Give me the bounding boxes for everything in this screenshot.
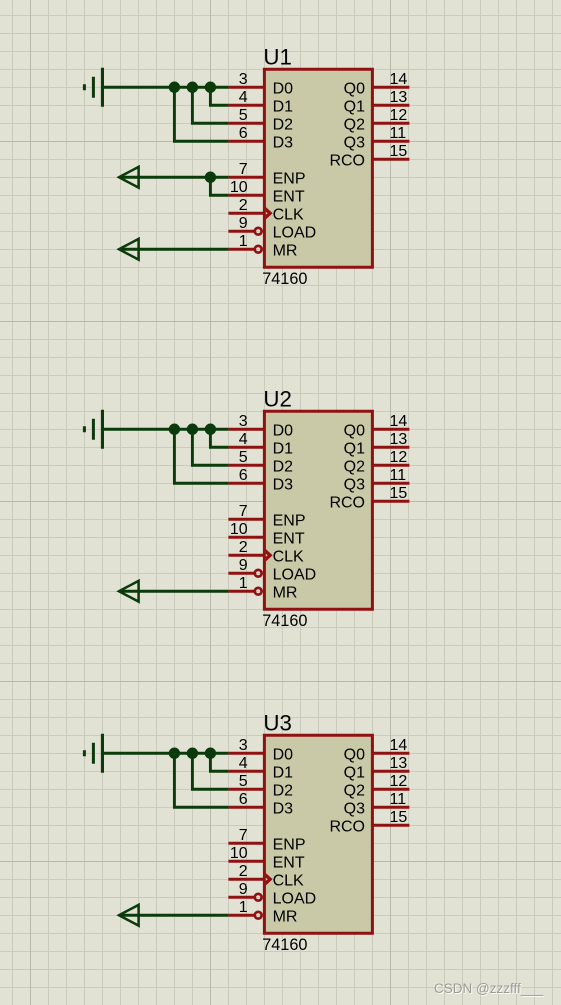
svg-text:MR: MR <box>273 908 298 925</box>
pin 1 (MR) <box>228 233 297 259</box>
svg-text:1: 1 <box>239 233 248 250</box>
svg-text:CSDN @zzzfff___: CSDN @zzzfff___ <box>434 981 544 996</box>
svg-text:ENP: ENP <box>273 170 306 187</box>
svg-text:5: 5 <box>239 773 248 790</box>
svg-text:9: 9 <box>239 881 248 898</box>
wire branch to D3 <box>174 753 228 807</box>
svg-text:Q2: Q2 <box>344 116 365 133</box>
pin 15 (RCO) <box>329 143 409 169</box>
svg-text:7: 7 <box>239 161 248 178</box>
svg-text:CLK: CLK <box>273 548 304 565</box>
ground symbol <box>83 68 104 107</box>
svg-text:LOAD: LOAD <box>273 224 317 241</box>
svg-text:2: 2 <box>239 197 248 214</box>
pin 14 (Q0) <box>344 737 410 763</box>
svg-text:9: 9 <box>239 557 248 574</box>
pin 13 (Q1) <box>344 431 410 457</box>
svg-text:12: 12 <box>390 773 408 790</box>
input terminal arrow (MR net) <box>119 581 139 602</box>
pin 2 (CLK) <box>228 197 304 223</box>
input terminal arrow (MR net) <box>119 239 139 260</box>
pin 4 (D1) <box>228 89 293 115</box>
svg-text:15: 15 <box>390 485 408 502</box>
svg-text:ENT: ENT <box>273 854 305 871</box>
svg-text:Q1: Q1 <box>344 98 365 115</box>
junction on D0 wire at D3 branch <box>169 748 180 759</box>
pin 11 (Q3) <box>344 467 410 493</box>
pin 3 (D0) <box>228 737 293 763</box>
svg-text:U3: U3 <box>263 711 292 736</box>
svg-text:5: 5 <box>239 449 248 466</box>
junction on D0 wire at D1 branch <box>205 82 216 93</box>
svg-text:Q0: Q0 <box>344 422 365 439</box>
svg-text:LOAD: LOAD <box>273 566 317 583</box>
pin 3 (D0) <box>228 71 293 97</box>
svg-text:12: 12 <box>390 107 408 124</box>
wire terminal to MR pin <box>120 590 228 593</box>
pin 7 (ENP) <box>228 827 305 853</box>
pin 14 (Q0) <box>344 413 410 439</box>
pin 7 (ENP) <box>228 161 305 187</box>
junction on D0 wire at D1 branch <box>205 748 216 759</box>
pin 5 (D2) <box>228 107 293 133</box>
svg-text:D0: D0 <box>273 422 294 439</box>
junction on D0 wire at D1 branch <box>205 424 216 435</box>
svg-text:D0: D0 <box>273 746 294 763</box>
svg-text:U2: U2 <box>263 387 292 412</box>
svg-text:Q1: Q1 <box>344 764 365 781</box>
junction on D0 wire at D3 branch <box>169 82 180 93</box>
svg-text:D2: D2 <box>273 782 294 799</box>
svg-text:6: 6 <box>239 125 248 142</box>
svg-text:D2: D2 <box>273 116 294 133</box>
svg-text:ENT: ENT <box>273 530 305 547</box>
wire ground to D0 pin <box>104 752 228 755</box>
pin 12 (Q2) <box>344 107 410 133</box>
pin 4 (D1) <box>228 755 293 781</box>
svg-text:Q3: Q3 <box>344 134 365 151</box>
svg-text:2: 2 <box>239 539 248 556</box>
svg-text:6: 6 <box>239 467 248 484</box>
svg-text:Q3: Q3 <box>344 476 365 493</box>
junction on D0 wire at D2 branch <box>187 82 198 93</box>
svg-text:10: 10 <box>230 845 248 862</box>
svg-text:Q0: Q0 <box>344 80 365 97</box>
svg-text:3: 3 <box>239 413 248 430</box>
svg-text:74160: 74160 <box>262 612 307 630</box>
svg-text:7: 7 <box>239 503 248 520</box>
junction on D0 wire at D3 branch <box>169 424 180 435</box>
svg-text:74160: 74160 <box>262 270 307 288</box>
svg-text:14: 14 <box>390 737 408 754</box>
junction on D0 wire at D2 branch <box>187 424 198 435</box>
svg-text:1: 1 <box>239 899 248 916</box>
svg-text:2: 2 <box>239 863 248 880</box>
svg-text:LOAD: LOAD <box>273 890 317 907</box>
svg-text:D1: D1 <box>273 98 294 115</box>
pin 1 (MR) <box>228 899 297 925</box>
pin 9 (LOAD) <box>228 881 316 907</box>
wire branch to D1 <box>210 87 228 105</box>
svg-text:D3: D3 <box>273 134 294 151</box>
input terminal arrow (MR net) <box>119 905 139 926</box>
svg-text:D3: D3 <box>273 800 294 817</box>
svg-text:Q0: Q0 <box>344 746 365 763</box>
pin 14 (Q0) <box>344 71 410 97</box>
svg-text:RCO: RCO <box>329 818 365 835</box>
input terminal arrow (ENP net) <box>119 167 139 188</box>
svg-text:14: 14 <box>390 413 408 430</box>
svg-text:11: 11 <box>390 125 407 142</box>
wire terminal to MR pin <box>120 248 228 251</box>
svg-text:74160: 74160 <box>262 936 307 954</box>
svg-text:13: 13 <box>390 89 408 106</box>
svg-text:14: 14 <box>390 71 408 88</box>
svg-text:6: 6 <box>239 791 248 808</box>
wire branch to ENT <box>210 177 228 195</box>
pin 5 (D2) <box>228 773 293 799</box>
svg-text:10: 10 <box>230 521 248 538</box>
pin 6 (D3) <box>228 467 293 493</box>
pin 15 (RCO) <box>329 485 409 511</box>
svg-text:12: 12 <box>390 449 408 466</box>
junction on D0 wire at D2 branch <box>187 748 198 759</box>
svg-text:ENT: ENT <box>273 188 305 205</box>
svg-text:Q2: Q2 <box>344 458 365 475</box>
pin 3 (D0) <box>228 413 293 439</box>
pin 10 (ENT) <box>228 521 304 547</box>
svg-text:Q1: Q1 <box>344 440 365 457</box>
pin 1 (MR) <box>228 575 297 601</box>
IC U2 74160 body <box>264 411 372 609</box>
svg-text:RCO: RCO <box>329 494 365 511</box>
svg-text:ENP: ENP <box>273 836 306 853</box>
svg-text:11: 11 <box>390 467 407 484</box>
svg-text:D0: D0 <box>273 80 294 97</box>
wire branch to D2 <box>192 87 228 123</box>
svg-text:4: 4 <box>239 755 248 772</box>
svg-text:U1: U1 <box>263 45 292 70</box>
wire branch to D1 <box>210 753 228 771</box>
pin 10 (ENT) <box>228 845 304 871</box>
wire branch to D3 <box>174 429 228 483</box>
svg-text:D3: D3 <box>273 476 294 493</box>
svg-text:CLK: CLK <box>273 872 304 889</box>
svg-text:Q2: Q2 <box>344 782 365 799</box>
pin 7 (ENP) <box>228 503 305 529</box>
wire branch to D2 <box>192 429 228 465</box>
svg-text:D1: D1 <box>273 440 294 457</box>
svg-text:MR: MR <box>273 242 298 259</box>
wire terminal to ENP pin <box>120 176 228 179</box>
svg-text:CLK: CLK <box>273 206 304 223</box>
IC U3 74160 body <box>264 735 372 933</box>
pin 15 (RCO) <box>329 809 409 835</box>
svg-text:7: 7 <box>239 827 248 844</box>
svg-text:5: 5 <box>239 107 248 124</box>
svg-text:3: 3 <box>239 71 248 88</box>
svg-text:13: 13 <box>390 431 408 448</box>
pin 5 (D2) <box>228 449 293 475</box>
svg-text:15: 15 <box>390 809 408 826</box>
pin 6 (D3) <box>228 791 293 817</box>
svg-text:4: 4 <box>239 431 248 448</box>
svg-text:3: 3 <box>239 737 248 754</box>
pin 2 (CLK) <box>228 539 304 565</box>
pin 4 (D1) <box>228 431 293 457</box>
ground symbol <box>83 410 104 449</box>
pin 2 (CLK) <box>228 863 304 889</box>
wire branch to D1 <box>210 429 228 447</box>
wire branch to D2 <box>192 753 228 789</box>
junction on ENP wire <box>205 172 216 183</box>
svg-text:MR: MR <box>273 584 298 601</box>
IC U1 74160 body <box>264 69 372 267</box>
svg-text:4: 4 <box>239 89 248 106</box>
pin 12 (Q2) <box>344 773 410 799</box>
svg-text:1: 1 <box>239 575 248 592</box>
pin 10 (ENT) <box>228 179 304 205</box>
pin 12 (Q2) <box>344 449 410 475</box>
svg-text:11: 11 <box>390 791 407 808</box>
pin 6 (D3) <box>228 125 293 151</box>
wire branch to D3 <box>174 87 228 141</box>
svg-text:10: 10 <box>230 179 248 196</box>
pin 11 (Q3) <box>344 791 410 817</box>
wire ground to D0 pin <box>104 86 228 89</box>
pin 13 (Q1) <box>344 755 410 781</box>
svg-text:D1: D1 <box>273 764 294 781</box>
pin 9 (LOAD) <box>228 215 316 241</box>
wire ground to D0 pin <box>104 428 228 431</box>
pin 13 (Q1) <box>344 89 410 115</box>
pin 9 (LOAD) <box>228 557 316 583</box>
svg-text:RCO: RCO <box>329 152 365 169</box>
svg-text:Q3: Q3 <box>344 800 365 817</box>
pin 11 (Q3) <box>344 125 410 151</box>
svg-text:15: 15 <box>390 143 408 160</box>
ground symbol <box>83 734 104 773</box>
svg-text:D2: D2 <box>273 458 294 475</box>
svg-text:13: 13 <box>390 755 408 772</box>
svg-text:9: 9 <box>239 215 248 232</box>
svg-text:ENP: ENP <box>273 512 306 529</box>
wire terminal to MR pin <box>120 914 228 917</box>
